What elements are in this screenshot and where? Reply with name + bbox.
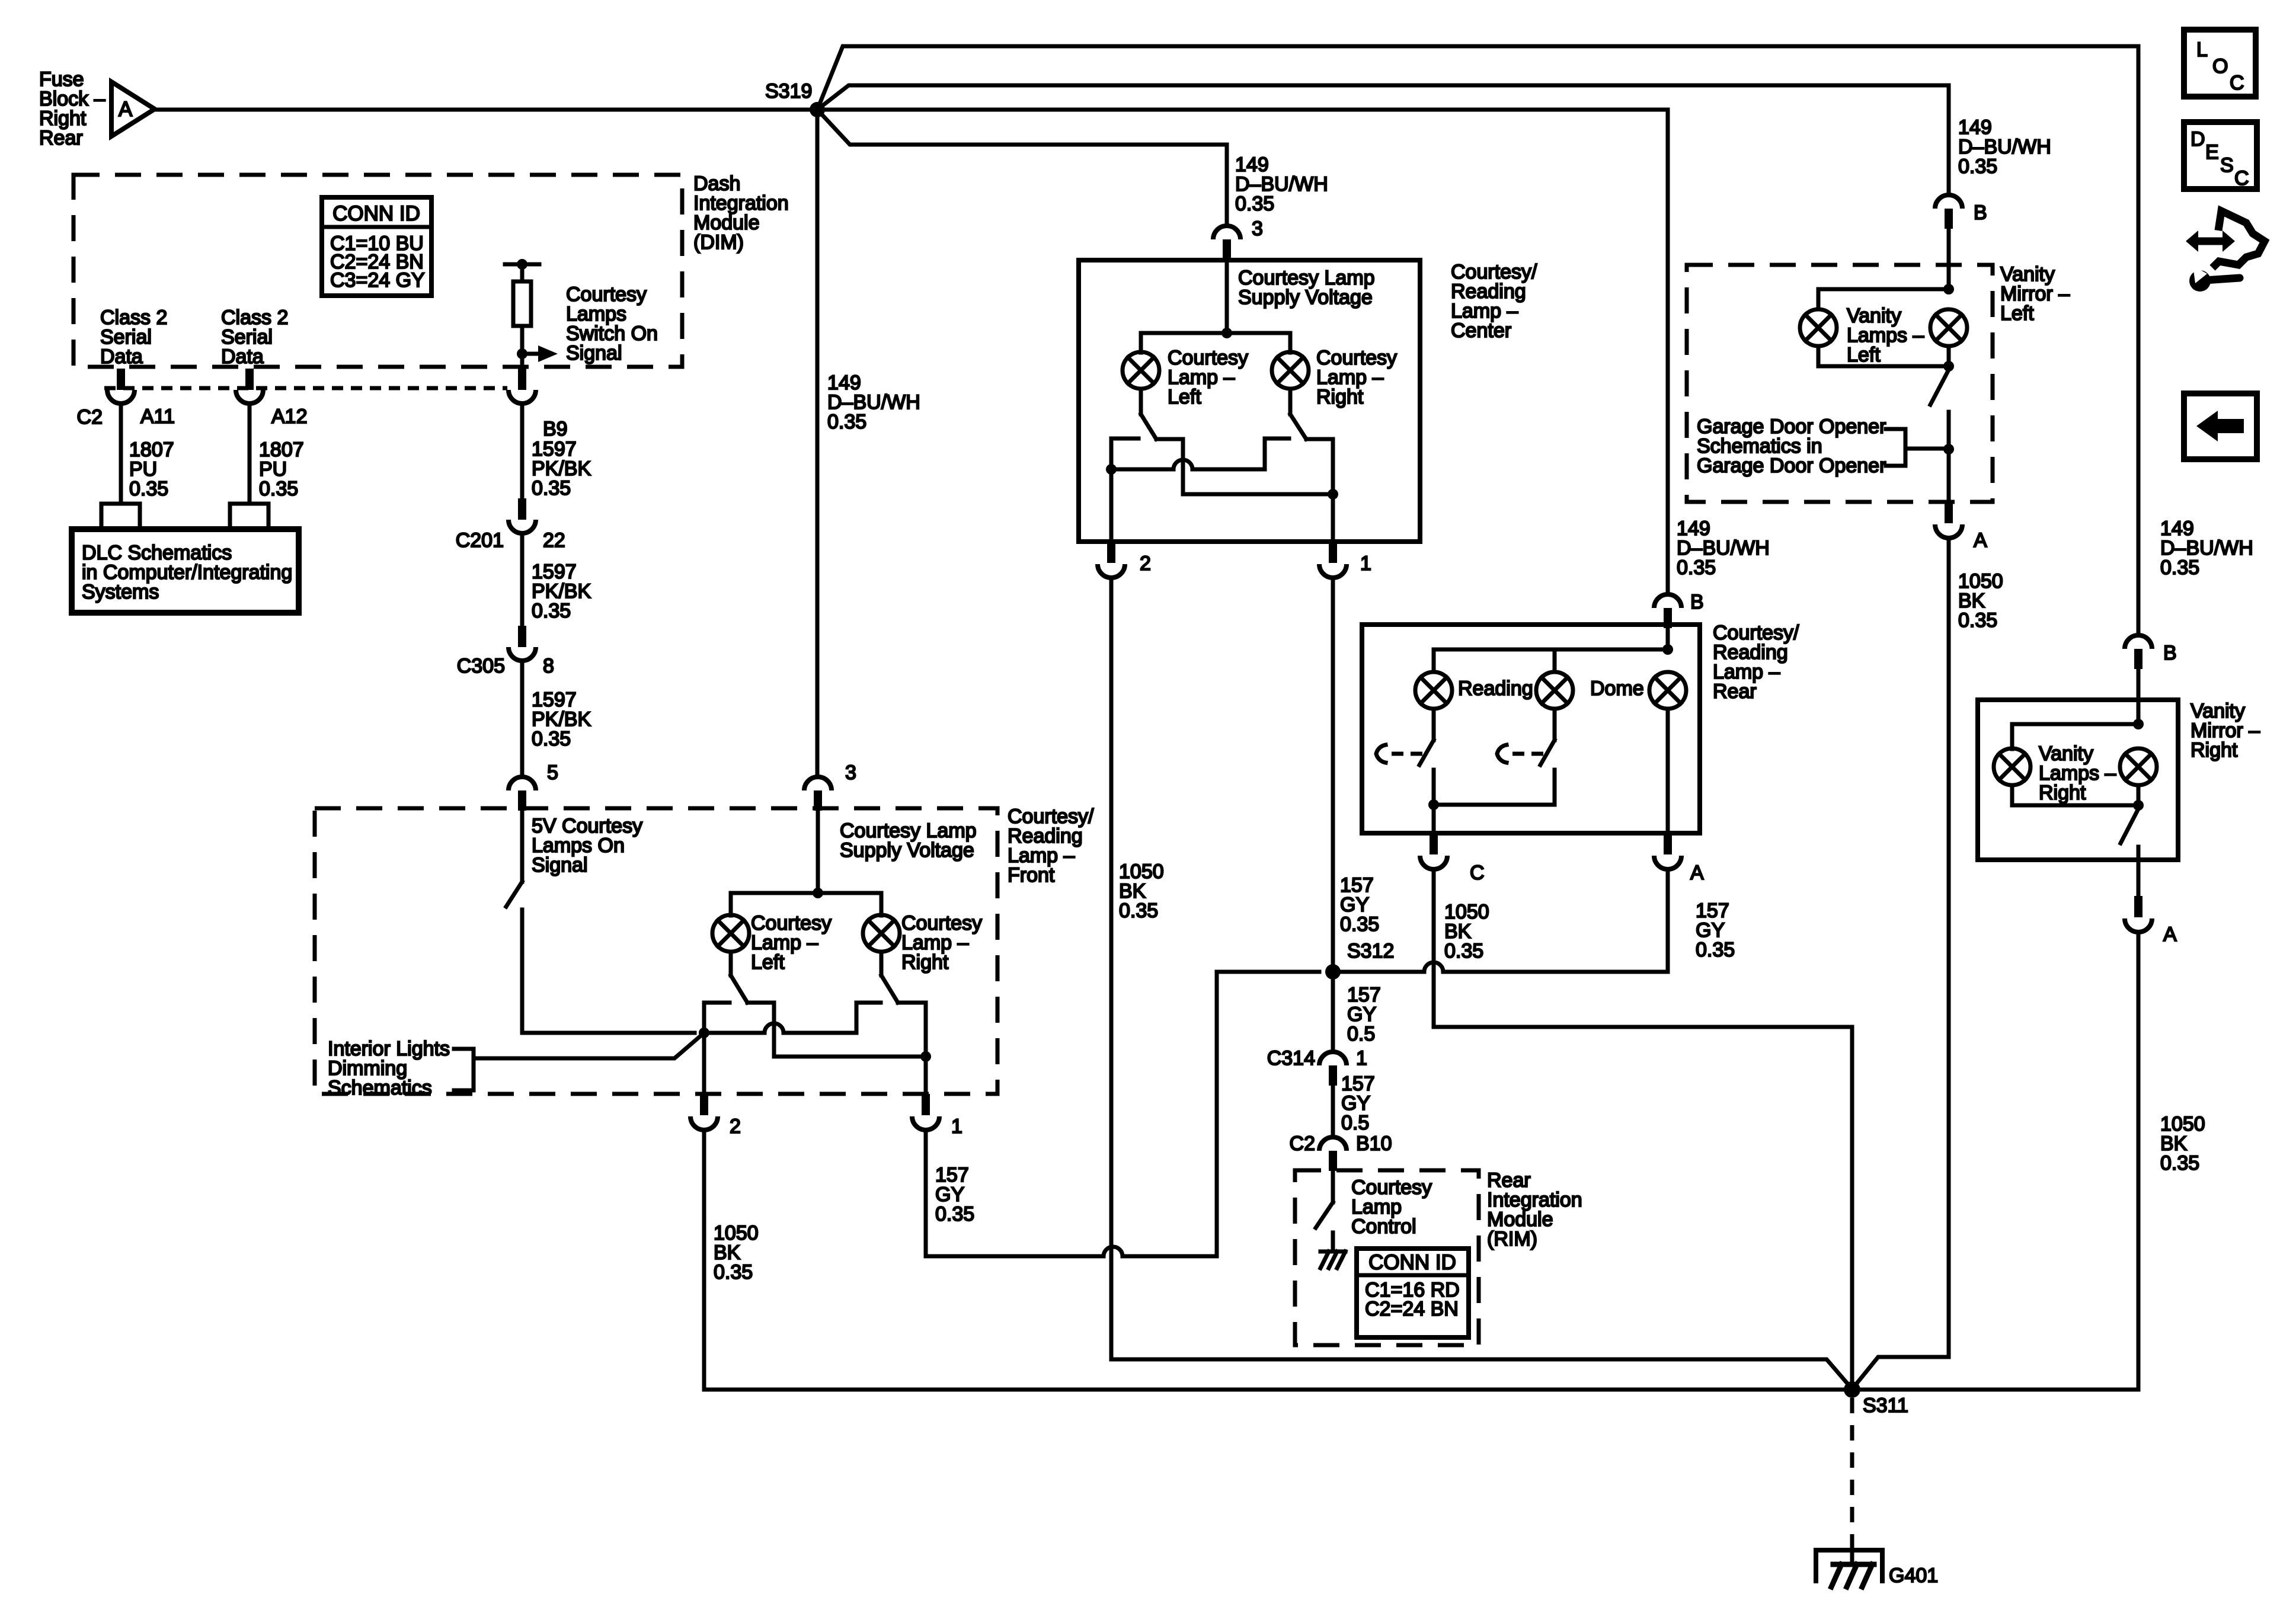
svg-text:B: B (1690, 591, 1704, 613)
wire rear A to S312 line (1666, 869, 1670, 972)
wire hop over rear C wire (1424, 962, 1443, 972)
connector A11 pin (117, 369, 125, 390)
wire hop over center pin2 wire (1104, 1247, 1123, 1256)
svg-text:Signal: Signal (566, 342, 622, 364)
connector C201 (509, 520, 536, 533)
junction S319 (810, 102, 825, 117)
lamp Courtesy Lamp - Left (center) (1123, 352, 1159, 389)
svg-text:G401: G401 (1889, 1564, 1938, 1587)
svg-text:22: 22 (543, 529, 565, 552)
wire vanity right B into box (2137, 669, 2141, 700)
lamp Vanity Lamps - Left 2 (1930, 309, 1967, 346)
wire S312 to C314 (1331, 972, 1335, 1052)
wire front pin 1 to S312 (924, 1130, 928, 1256)
wire S312 to rear lamp A (1333, 970, 1424, 974)
wire C314 to RIM B10 (1331, 1086, 1335, 1137)
switch vanity mirror left (1930, 370, 1949, 405)
ground (RIM internal) (1331, 1233, 1335, 1251)
svg-text:0.35: 0.35 (1340, 913, 1379, 936)
svg-text:1: 1 (951, 1115, 962, 1138)
wire B10 into RIM (1331, 1171, 1335, 1202)
icon back arrow box (2184, 393, 2257, 459)
Vanity Mirror Right box (1978, 700, 2178, 860)
wire C305 to front box pin 5 (520, 661, 525, 777)
svg-text:Data: Data (100, 345, 143, 368)
wire S319 to vanity mirror right (top line) (817, 46, 2138, 635)
switch center right lamp (1288, 389, 1293, 414)
connector B9 (509, 390, 536, 404)
connector C (rear) (1430, 833, 1438, 854)
svg-text:C3=24 GY: C3=24 GY (330, 269, 425, 292)
lamp Vanity Lamps - Right 2 (2120, 748, 2157, 785)
svg-text:C: C (2230, 72, 2244, 94)
svg-text:A: A (2163, 923, 2177, 946)
svg-text:Rear: Rear (1713, 680, 1757, 703)
junction vanity right top (2133, 719, 2144, 729)
off-page connector triangle A (Fuse Block) (111, 82, 155, 136)
Courtesy/Reading Lamp Rear box (1362, 625, 1700, 833)
connector A (vanity left) (1945, 502, 1953, 523)
svg-text:0.35: 0.35 (259, 478, 298, 500)
connector 1 (front box) (922, 1094, 930, 1115)
svg-text:L: L (2196, 39, 2208, 61)
svg-text:8: 8 (543, 655, 554, 677)
junction center pin2 node (1106, 464, 1117, 475)
wire 5V switch to seat rail (522, 1031, 695, 1035)
svg-text:C314: C314 (1267, 1047, 1315, 1070)
connector B (rear) (1654, 594, 1681, 608)
lamp Reading (rear) (1415, 672, 1452, 709)
junction garage door tap (1943, 444, 1954, 454)
svg-text:0.35: 0.35 (1235, 193, 1274, 215)
svg-text:A11: A11 (140, 405, 175, 428)
svg-text:C2: C2 (77, 406, 103, 428)
lamp rear middle (1536, 672, 1573, 709)
wire seat rail front (704, 1031, 765, 1035)
svg-text:Right: Right (2039, 782, 2086, 804)
wire vanity right bus (2137, 700, 2141, 724)
lamp Vanity Lamps - Left 1 (1800, 309, 1837, 346)
wire S319 to courtesy/reading lamp rear (817, 110, 1668, 594)
svg-text:Left: Left (2000, 302, 2034, 325)
wire rear B to bus (1666, 628, 1670, 649)
svg-text:5: 5 (547, 761, 558, 784)
svg-text:B: B (2163, 642, 2177, 664)
svg-text:CONN ID: CONN ID (1368, 1251, 1456, 1274)
wire vanity left lamp bottoms (1817, 346, 1821, 366)
switch 5V Courtesy Lamps On Signal (520, 811, 525, 882)
svg-text:B: B (1974, 201, 1987, 224)
connector B9 pin (518, 369, 526, 390)
resistor Courtesy Lamps Switch On Signal (505, 263, 539, 267)
connector 3 (front box) (804, 777, 832, 790)
wire A12 to DLC (248, 404, 252, 504)
junction center pin1 node (1328, 489, 1338, 500)
svg-text:Right: Right (901, 951, 949, 974)
icon DESC box (2184, 122, 2257, 189)
svg-text:Left: Left (751, 951, 785, 974)
svg-text:Garage Door Opener: Garage Door Opener (1697, 454, 1886, 477)
junction front lamp bus (813, 888, 823, 898)
wire vanity left B to bus (1947, 229, 1951, 289)
bracket garage door opener (1886, 429, 1905, 466)
svg-text:C: C (1470, 862, 1485, 884)
wire vanity right lamp bottoms (2010, 785, 2014, 805)
connector B (vanity left) (1935, 195, 1962, 209)
svg-text:O: O (2212, 55, 2228, 78)
connector A12 (236, 390, 263, 404)
wire B9 to C201 (520, 404, 525, 498)
svg-text:A12: A12 (271, 405, 308, 428)
wire rear C drop (1432, 805, 1436, 833)
wire dome lamp down (1666, 709, 1670, 833)
junction rear bus (1662, 644, 1673, 655)
connector 2 (center box) (1107, 542, 1115, 563)
switch front left lamp (729, 952, 733, 975)
wire fuse block to S319 (155, 108, 817, 112)
bracket interior lights dimming (454, 1049, 474, 1090)
svg-text:0.5: 0.5 (1347, 1023, 1375, 1045)
Rear Integration Module box (1295, 1170, 1479, 1345)
wire hop over center blade drop (1173, 460, 1192, 469)
connector 5 (front box) (509, 777, 536, 790)
svg-text:C305: C305 (457, 655, 505, 677)
svg-text:B10: B10 (1356, 1132, 1392, 1155)
svg-text:0.35: 0.35 (2160, 556, 2199, 579)
svg-text:S: S (2220, 154, 2234, 177)
svg-text:0.35: 0.35 (1677, 556, 1716, 579)
connector B (vanity right) (2125, 635, 2152, 649)
svg-text:0.35: 0.35 (935, 1203, 974, 1225)
wire interior lights dimming to front node (474, 1033, 704, 1058)
Courtesy/Reading Lamp Front box (315, 808, 997, 1094)
wire center pin 1 to S312 (1331, 578, 1335, 972)
svg-text:C2: C2 (1290, 1132, 1315, 1155)
wire supply to lamps (front) (816, 811, 820, 893)
svg-text:2: 2 (1140, 552, 1151, 575)
connector 3 (center box) (1213, 226, 1240, 239)
wire resistor to B9 (520, 354, 525, 369)
svg-text:0.35: 0.35 (1958, 155, 1997, 178)
svg-text:C2=24 BN: C2=24 BN (1365, 1298, 1459, 1320)
wire S311 to G401 (dashed) (1850, 1398, 1854, 1537)
svg-text:Front: Front (1008, 864, 1055, 886)
wire rear C to S311 (1434, 869, 1852, 1389)
svg-text:Supply Voltage: Supply Voltage (840, 839, 974, 862)
svg-text:1: 1 (1360, 552, 1371, 575)
wire front lamp bus (731, 891, 881, 895)
junction S311 (1844, 1381, 1860, 1398)
wire S319 down to courtesy/reading lamp front (816, 110, 820, 777)
svg-text:3: 3 (845, 761, 856, 784)
svg-text:0.35: 0.35 (1444, 940, 1483, 962)
wire A11 to DLC (119, 404, 123, 504)
junction vanity right bottom (2133, 800, 2144, 811)
svg-text:(RIM): (RIM) (1487, 1228, 1537, 1250)
wire vanity left A to S311 (1853, 538, 1949, 1388)
svg-text:Right: Right (1316, 386, 1364, 408)
CONN ID table (DIM) (322, 197, 431, 296)
connector row dashed line (DIM C2) (104, 386, 507, 391)
svg-text:CONN ID: CONN ID (332, 202, 420, 225)
connector C305 (509, 647, 536, 661)
connector C201 pin (518, 498, 526, 520)
wire seat rail center (1111, 468, 1173, 472)
svg-text:0.5: 0.5 (1341, 1112, 1369, 1134)
connector C305 pin (518, 626, 526, 647)
svg-text:0.35: 0.35 (1119, 900, 1158, 922)
DLC Schematics box (72, 529, 299, 613)
svg-text:3: 3 (1252, 217, 1263, 240)
svg-text:Schematics: Schematics (328, 1077, 432, 1099)
junction front pin1 node (920, 1051, 931, 1062)
svg-text:0.35: 0.35 (129, 478, 168, 500)
switch reading lamp (1432, 709, 1436, 740)
svg-text:Left: Left (1168, 386, 1201, 408)
wire center pin drops (1109, 469, 1114, 542)
Courtesy/Reading Lamp Center box (1079, 260, 1420, 542)
svg-text:E: E (2205, 141, 2219, 164)
svg-text:D: D (2191, 128, 2205, 151)
switch center left lamp (1139, 389, 1143, 414)
wire hop over front blade drop (765, 1023, 784, 1033)
svg-text:Left: Left (1847, 344, 1881, 366)
contact seat center left (1111, 438, 1139, 469)
contact seat front left (704, 1003, 730, 1033)
svg-text:Supply Voltage: Supply Voltage (1238, 286, 1373, 309)
svg-text:C: C (2234, 167, 2249, 190)
lamp Dome (rear) (1649, 672, 1686, 709)
connector C314 (1319, 1052, 1347, 1065)
svg-text:S319: S319 (765, 80, 812, 103)
connector 1 (center box) (1329, 542, 1337, 563)
svg-text:0.35: 0.35 (714, 1261, 753, 1283)
svg-text:0.35: 0.35 (827, 411, 866, 433)
svg-text:Control: Control (1351, 1215, 1416, 1238)
svg-text:A: A (1974, 529, 1987, 552)
svg-text:Center: Center (1451, 319, 1511, 342)
svg-text:A: A (1690, 862, 1704, 884)
switch rear middle lamp (1553, 709, 1557, 740)
connector A (rear) (1664, 833, 1672, 854)
node Courtesy Lamps Switch On Signal arrow (517, 348, 527, 359)
svg-text:Systems: Systems (82, 581, 159, 603)
switch front right lamp (880, 952, 884, 975)
svg-text:0.35: 0.35 (2160, 1152, 2199, 1174)
switch Courtesy Lamp Control (1316, 1202, 1333, 1228)
svg-text:C201: C201 (456, 529, 504, 552)
wire center pin 2 to S311 (1111, 578, 1852, 1389)
svg-text:0.35: 0.35 (1696, 939, 1735, 961)
icon LOC box (2184, 30, 2256, 97)
Dash Integration Module (DIM) box (73, 175, 682, 367)
svg-text:Rear: Rear (39, 127, 83, 149)
connector C2 B10 (1319, 1137, 1347, 1151)
svg-text:A: A (119, 98, 133, 121)
svg-text:Data: Data (221, 345, 264, 368)
connector A11 (107, 390, 135, 404)
junction rear switch rail (1428, 799, 1439, 810)
wire ground rail to S311 (704, 1388, 2138, 1392)
wire vanity right A to S311 rail (2137, 932, 2141, 1390)
lamp Courtesy Lamp - Left (front) (712, 915, 749, 952)
wire C201 to C305 (520, 533, 525, 626)
svg-text:Dome: Dome (1590, 677, 1644, 700)
connector A12 pin (245, 369, 254, 390)
svg-text:Right: Right (2191, 739, 2238, 761)
CONN ID table (RIM) (1357, 1249, 1469, 1337)
svg-text:0.35: 0.35 (532, 477, 571, 500)
lamp Courtesy Lamp - Right (front) (863, 915, 900, 952)
switch vanity mirror right (2121, 809, 2138, 843)
svg-text:(DIM): (DIM) (693, 231, 744, 254)
wire front pin2 drop (702, 1033, 706, 1094)
junction vanity left bottom (1943, 361, 1954, 372)
wire S319 to vanity mirror left (817, 85, 1949, 195)
svg-text:0.35: 0.35 (532, 728, 571, 750)
wire front pin 2 to S311 rail (702, 1130, 706, 1390)
Vanity Mirror Left box (1687, 265, 1993, 502)
svg-text:Reading: Reading (1458, 677, 1533, 700)
svg-text:S311: S311 (1863, 1394, 1908, 1417)
lamp Vanity Lamps - Right 1 (1994, 748, 2030, 785)
svg-text:B9: B9 (543, 418, 568, 440)
icon harness routing (arrow, outline, wrench) (2186, 211, 2265, 292)
svg-text:Signal: Signal (532, 854, 588, 876)
ground G401 (1850, 1537, 1854, 1564)
wire supply to lamps (center) (1225, 260, 1229, 333)
junction front pin2 node (699, 1028, 709, 1038)
junction center lamp bus (1221, 328, 1232, 338)
junction S312 (1325, 964, 1341, 980)
svg-text:2: 2 (730, 1115, 741, 1138)
lamp Courtesy Lamp - Right (center) (1272, 352, 1309, 389)
svg-text:S312: S312 (1347, 940, 1394, 962)
svg-text:0.35: 0.35 (1958, 609, 1997, 632)
wire S319 to courtesy/reading lamp center (817, 110, 1227, 226)
junction vanity left top (1943, 284, 1954, 295)
svg-text:0.35: 0.35 (532, 600, 571, 622)
connector A (vanity right) (2137, 860, 2141, 896)
terminal fork A12 to DLC box (230, 504, 268, 529)
connector 2 (front box) (700, 1094, 708, 1115)
svg-text:1: 1 (1356, 1047, 1367, 1070)
terminal fork A11 to DLC box (101, 504, 140, 529)
